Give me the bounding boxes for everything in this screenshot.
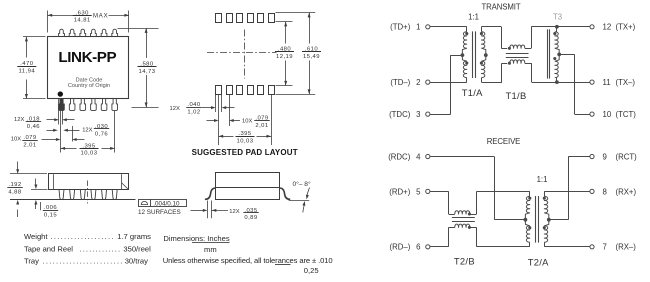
svg-text:0,76: 0,76 [95, 131, 109, 137]
svg-text:350/reel: 350/reel [123, 245, 151, 254]
transformer T1/A secondary winding [481, 32, 484, 48]
svg-text:14,73: 14,73 [139, 69, 156, 75]
svg-text:.............: ............. [80, 245, 122, 254]
svg-text:1,02: 1,02 [187, 110, 200, 116]
svg-text:1.7 grams: 1.7 grams [117, 232, 151, 241]
svg-text:12,19: 12,19 [276, 54, 293, 60]
side view centerline [87, 181, 89, 204]
svg-text:TRANSMIT: TRANSMIT [481, 3, 520, 12]
pin6 extension line [114, 111, 116, 153]
svg-text:(TD+): (TD+) [390, 23, 411, 32]
wire pin4 to T2/A primary center tap [430, 156, 494, 158]
svg-text:T2/A: T2/A [528, 257, 549, 268]
svg-text:0,25: 0,25 [304, 266, 319, 275]
pin 10 terminal [590, 112, 594, 116]
svg-text:2,01: 2,01 [23, 142, 36, 148]
svg-text:30/tray: 30/tray [125, 256, 148, 265]
svg-text:12X: 12X [14, 117, 24, 123]
flatness feature control frame [139, 200, 187, 207]
wire T1/A secondary top to choke T1/B [481, 27, 483, 32]
svg-text:MAX: MAX [93, 14, 108, 20]
svg-text:(RCT): (RCT) [616, 153, 638, 162]
wire choke T1/B top to pin 12 rail [525, 48, 531, 50]
svg-text:0,15: 0,15 [44, 213, 58, 219]
pad layout centerlines [207, 52, 277, 54]
wire pin2 to T1/A primary bottom [430, 82, 467, 84]
svg-text:1:1: 1:1 [537, 175, 548, 184]
pin 8 terminal [590, 189, 594, 193]
svg-text:10,03: 10,03 [81, 151, 98, 157]
svg-text:Country of Origin: Country of Origin [68, 83, 110, 89]
suggested pad layout: top row pads [216, 14, 222, 23]
dimension .630/14,81 MAX top width [47, 11, 49, 33]
top row pins of top view [59, 29, 65, 37]
svg-text:...................: ................... [51, 232, 115, 241]
svg-text:(RDC): (RDC) [388, 153, 410, 162]
pin2 extension line [72, 126, 74, 142]
transformer T1/A primary winding [463, 32, 466, 48]
dimension .395/10,03 pad span [219, 136, 234, 138]
svg-text:(RX+): (RX+) [616, 187, 637, 196]
svg-text:10,03: 10,03 [237, 139, 254, 145]
dimension .610/15,49 outer span [276, 12, 316, 14]
pad1 edge extension lines [215, 95, 217, 112]
svg-text:12: 12 [603, 23, 612, 32]
dimension .192/4,88 height [10, 173, 47, 175]
T3 phasing dots [553, 32, 556, 35]
autotransformer T3 winding [556, 27, 558, 32]
T3 center tap junction dot [557, 53, 561, 57]
svg-text:T3: T3 [553, 12, 562, 21]
dimension .480/12,19 inner span [276, 21, 293, 23]
svg-text:12X: 12X [82, 128, 92, 134]
pin 12 terminal [590, 25, 594, 29]
svg-text:.079: .079 [23, 135, 36, 141]
T3 junction dots on rails [555, 25, 559, 29]
svg-text:(TX–): (TX–) [616, 78, 636, 87]
end view body [216, 173, 280, 200]
pad span extension lines [218, 95, 220, 145]
transformer T2/A primary winding [529, 191, 531, 196]
svg-text:RECEIVE: RECEIVE [487, 137, 521, 146]
pin 5 terminal [426, 189, 430, 193]
svg-text:3: 3 [416, 110, 420, 119]
dimension 12X .030/0,76 foot width [47, 130, 54, 132]
dimension .006/0,15 standoff [31, 189, 48, 191]
svg-text:........................: ........................ [43, 256, 124, 265]
pin 3 terminal [426, 112, 430, 116]
bottom row pins of top view [59, 99, 65, 111]
svg-text:Tray: Tray [24, 256, 39, 265]
side view body [49, 174, 129, 190]
T2/B phasing dots [468, 212, 471, 215]
package top view body outline [48, 37, 129, 99]
svg-text:11: 11 [603, 78, 611, 87]
svg-text:Dimensions: Inches: Dimensions: Inches [163, 234, 229, 243]
svg-text:(RD+): (RD+) [389, 187, 410, 196]
pad2 center extension line [229, 95, 231, 126]
svg-text:(TX+): (TX+) [616, 23, 636, 32]
pin 11 terminal [590, 80, 594, 84]
svg-text:LINK-PP: LINK-PP [58, 49, 116, 66]
svg-text:(TCT): (TCT) [616, 110, 637, 119]
svg-text:(RD–): (RD–) [390, 243, 411, 252]
pin 1 indicator dot [58, 91, 63, 96]
pin 2 terminal [426, 80, 430, 84]
svg-text:.030: .030 [95, 124, 109, 130]
svg-text:0°– 8°: 0°– 8° [293, 180, 311, 188]
svg-text:mm: mm [204, 245, 217, 254]
svg-text:(RX–): (RX–) [616, 243, 637, 252]
dimension .395/10,03 span (top view) [61, 148, 77, 150]
wire T1/A secondary bottom to choke T1/B [481, 78, 483, 83]
wire T3 center tap to pin 10 [559, 54, 574, 56]
svg-text:1:1: 1:1 [468, 12, 479, 21]
side view leads [59, 189, 64, 199]
svg-text:12X: 12X [170, 106, 180, 112]
svg-text:Unless otherwise specified, al: Unless otherwise specified, all toleranc… [163, 256, 333, 265]
svg-text:12X: 12X [229, 209, 239, 215]
end view left gull-wing lead [205, 188, 216, 199]
svg-text:T1/A: T1/A [462, 87, 483, 98]
svg-text:0,46: 0,46 [27, 124, 41, 130]
wire choke T1/B bottom to pin 11 rail [525, 63, 532, 65]
svg-text:10X: 10X [11, 136, 21, 142]
wire choke T2/B top to T2/A primary top [470, 214, 477, 216]
T1/A phasing and junction dots [465, 32, 468, 35]
wire T2/A secondary center tap to pin 9 [549, 219, 568, 221]
wire choke T2/B bottom to T2/A primary bottom [470, 227, 477, 229]
wire pin5 to choke T2/B top [430, 191, 449, 193]
pin 6 terminal [426, 245, 430, 249]
svg-text:8: 8 [603, 187, 607, 196]
dimension 10X .079/2,01 pad pitch [207, 120, 215, 122]
wire T2/A secondary bottom to pin 7 [544, 246, 590, 248]
choke T1/B bottom winding [510, 60, 525, 63]
svg-text:0,89: 0,89 [244, 215, 257, 221]
svg-text:11,94: 11,94 [19, 69, 36, 75]
svg-text:(TD–): (TD–) [390, 78, 410, 87]
choke T1/B core [506, 53, 529, 55]
dimension .470/11,94 body height (left) [23, 36, 46, 38]
wire T2/A secondary top to pin 8 [544, 191, 590, 193]
svg-text:T2/B: T2/B [454, 256, 475, 267]
dimension 12X .035/0,89 foot width [207, 201, 209, 219]
svg-text:7: 7 [603, 243, 607, 252]
svg-text:T1/B: T1/B [506, 90, 527, 101]
choke T2/B top winding [455, 211, 470, 214]
choke T2/B bottom winding [455, 224, 470, 227]
seating plane line [10, 199, 136, 201]
autotransformer T3 core [547, 29, 549, 78]
svg-text:15,49: 15,49 [303, 54, 320, 60]
T2/A phasing and junction dots [528, 197, 531, 200]
pin1 extension lines (bottom dims) [58, 99, 60, 125]
choke T2/B core [452, 217, 475, 219]
svg-text:5: 5 [416, 187, 421, 196]
svg-text:9: 9 [603, 153, 607, 162]
transformer T1/A core [472, 31, 474, 78]
suggested pad layout: bottom row pads [216, 86, 222, 95]
pin 1 terminal [426, 25, 430, 29]
svg-text:SUGGESTED PAD LAYOUT: SUGGESTED PAD LAYOUT [192, 148, 298, 157]
wire pin1 to T1/A primary top [430, 26, 467, 28]
end view right gull-wing lead [279, 188, 290, 199]
wire pin3 to T1/A primary center tap [430, 114, 451, 116]
svg-text:.004/0.10: .004/0.10 [153, 201, 180, 208]
svg-text:4,88: 4,88 [8, 190, 22, 196]
svg-text:Weight: Weight [24, 232, 48, 241]
svg-text:1: 1 [416, 23, 420, 32]
svg-text:2: 2 [416, 78, 420, 87]
T1/B phasing dots [508, 47, 511, 50]
svg-text:14,81: 14,81 [74, 18, 91, 24]
pin 4 terminal [426, 154, 430, 158]
svg-text:12 SURFACES: 12 SURFACES [138, 209, 181, 216]
svg-text:Tape and Reel: Tape and Reel [24, 245, 73, 254]
lead foot reference line (angle) [289, 200, 310, 202]
svg-text:10: 10 [603, 110, 612, 119]
transformer T2/A core [535, 196, 537, 243]
svg-text:2,01: 2,01 [255, 123, 268, 129]
svg-text:(TDC): (TDC) [389, 110, 411, 119]
choke T1/B top winding [510, 45, 525, 48]
transformer T2/A secondary winding [544, 191, 546, 196]
dimension .580/14,73 overall height (right) [118, 28, 159, 30]
wire pin6 to choke T2/B bottom [430, 246, 449, 248]
pin 9 terminal [590, 154, 594, 158]
svg-text:4: 4 [416, 153, 421, 162]
pin 7 terminal [590, 245, 594, 249]
svg-text:6: 6 [416, 243, 420, 252]
svg-text:10X: 10X [242, 119, 252, 125]
